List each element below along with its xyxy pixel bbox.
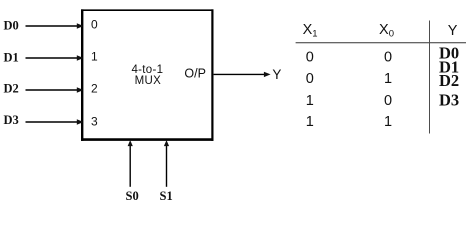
svg-text:X: X [379, 22, 389, 38]
svg-text:D3: D3 [439, 90, 459, 109]
svg-text:Y: Y [272, 67, 281, 82]
svg-text:3: 3 [91, 115, 98, 129]
svg-text:D0: D0 [4, 18, 19, 32]
svg-text:0: 0 [91, 18, 98, 32]
svg-text:D2: D2 [439, 71, 459, 90]
svg-text:1: 1 [306, 93, 314, 109]
svg-text:2: 2 [91, 82, 98, 96]
svg-text:1: 1 [91, 50, 98, 64]
svg-text:1: 1 [312, 29, 317, 40]
svg-text:MUX: MUX [135, 75, 161, 87]
svg-text:0: 0 [306, 71, 314, 87]
svg-text:S1: S1 [160, 189, 173, 202]
svg-text:O/P: O/P [184, 67, 206, 81]
svg-text:4-to-1: 4-to-1 [131, 64, 163, 76]
svg-text:Y: Y [448, 23, 458, 39]
svg-text:0: 0 [384, 50, 392, 66]
svg-text:1: 1 [384, 71, 392, 87]
svg-text:D1: D1 [4, 50, 19, 64]
svg-text:1: 1 [384, 114, 392, 130]
svg-text:D2: D2 [4, 82, 19, 96]
svg-text:0: 0 [389, 29, 394, 40]
svg-text:0: 0 [384, 93, 392, 109]
svg-text:0: 0 [306, 50, 314, 66]
svg-text:X: X [303, 22, 313, 38]
svg-text:1: 1 [306, 114, 314, 130]
svg-text:S0: S0 [126, 189, 139, 202]
svg-text:D3: D3 [4, 113, 19, 127]
